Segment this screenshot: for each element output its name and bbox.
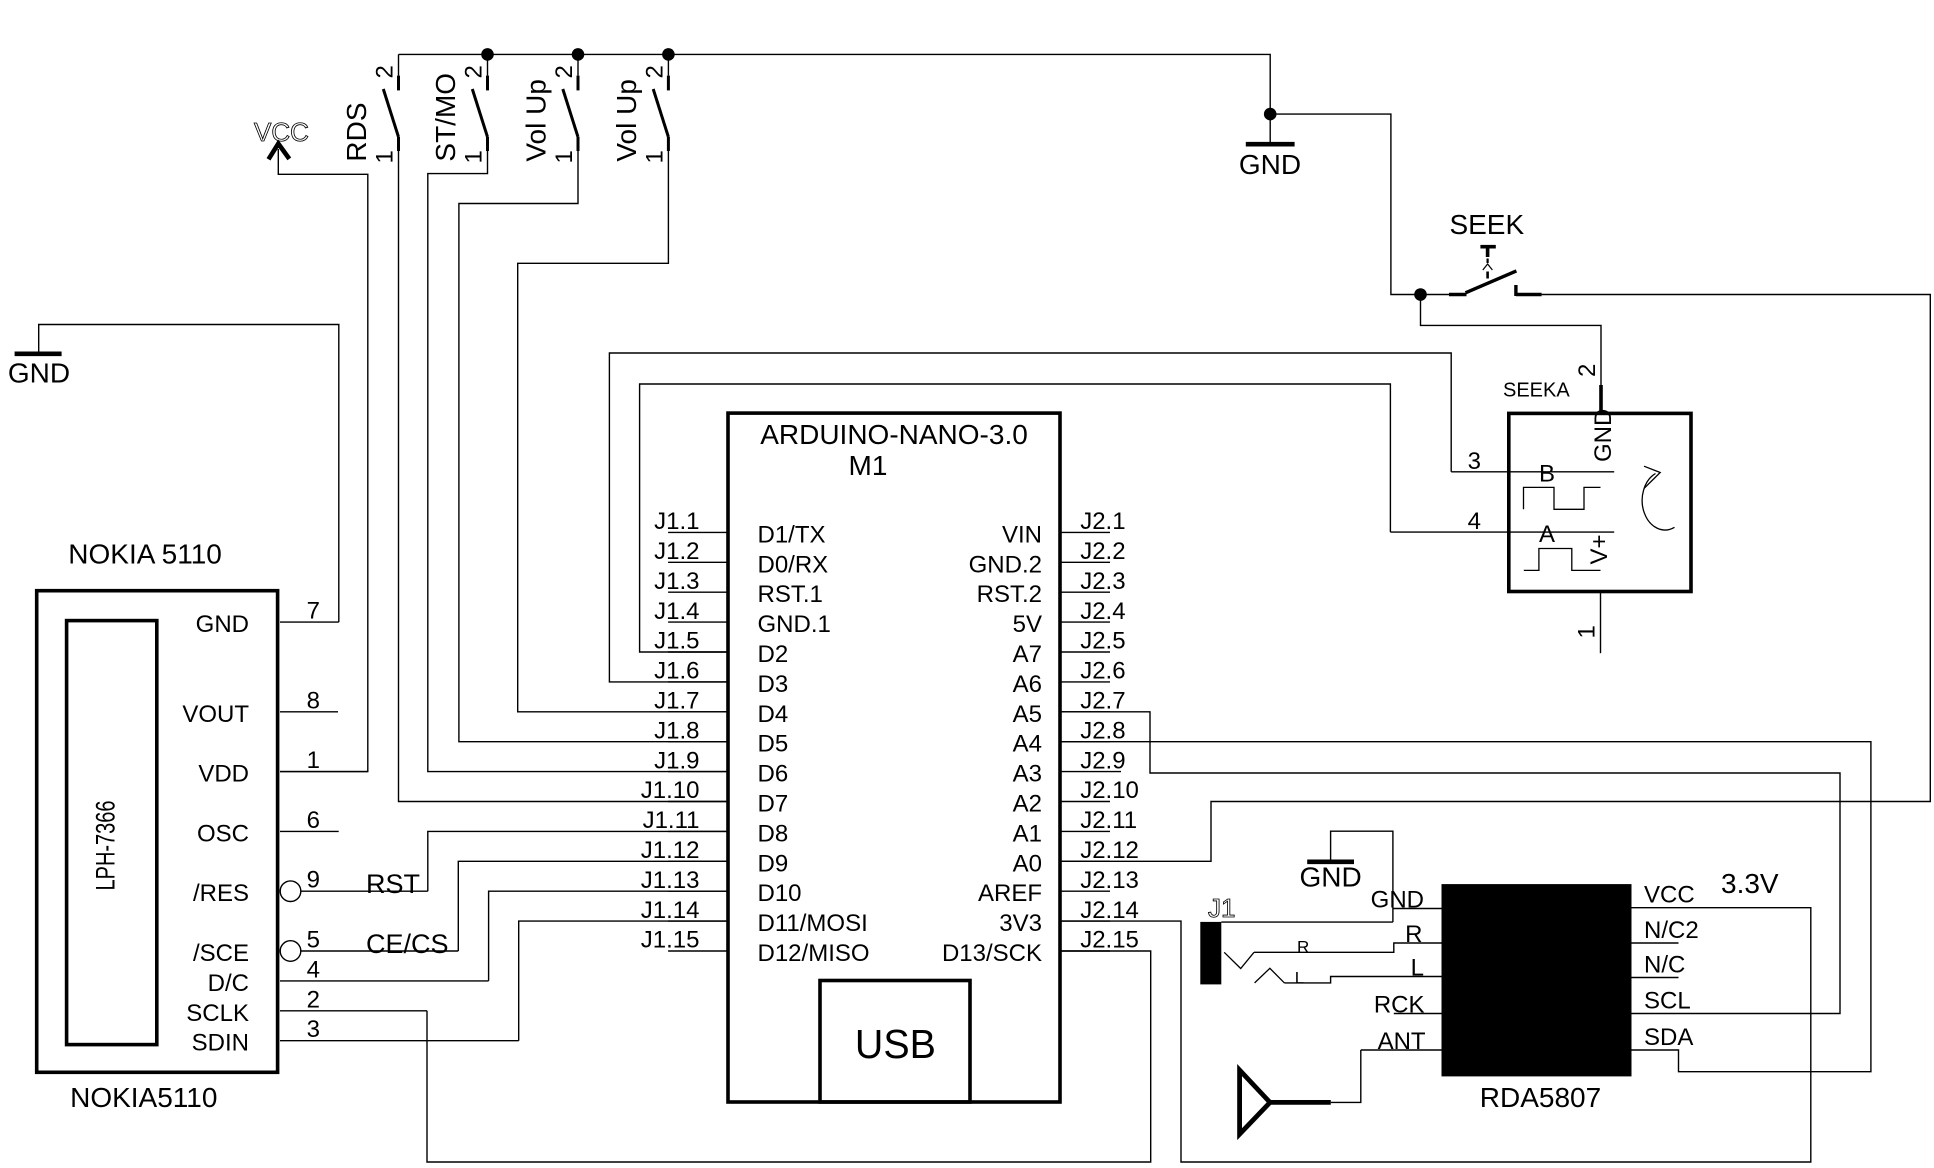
NOKIA pin 1 VDD bbox=[198, 747, 367, 788]
svg-text:J1.12: J1.12 bbox=[641, 837, 700, 864]
svg-text:D4: D4 bbox=[758, 701, 789, 728]
svg-text:D0/RX: D0/RX bbox=[758, 551, 829, 578]
NOKIA 5110 box bbox=[37, 591, 278, 1073]
svg-text:D8: D8 bbox=[758, 820, 789, 847]
Arduino pin J2.10 A2 bbox=[1013, 777, 1139, 817]
Arduino pin J2.12 A0 bbox=[1013, 837, 1139, 877]
wire SEEK to J2.12 A0 bbox=[1060, 295, 1930, 862]
Arduino USB connector box bbox=[820, 981, 970, 1103]
svg-text:D7: D7 bbox=[758, 791, 789, 818]
Arduino pin J1.4 GND.1 bbox=[654, 598, 831, 638]
svg-text:GND: GND bbox=[1299, 861, 1361, 892]
svg-text:GND: GND bbox=[1590, 409, 1617, 462]
svg-text:B: B bbox=[1539, 461, 1555, 488]
svg-text:GND.1: GND.1 bbox=[758, 611, 831, 638]
svg-text:J2.5: J2.5 bbox=[1080, 628, 1125, 655]
Arduino pin J2.1 VIN bbox=[1002, 508, 1126, 548]
svg-text:D11/MOSI: D11/MOSI bbox=[758, 910, 868, 937]
svg-text:1: 1 bbox=[1574, 625, 1601, 638]
svg-text:3: 3 bbox=[307, 1016, 320, 1043]
encoder pin V+ label bbox=[1586, 534, 1613, 564]
Arduino pin J2.7 A5 bbox=[1013, 688, 1126, 728]
svg-text:J1.15: J1.15 bbox=[641, 927, 700, 954]
svg-text:2: 2 bbox=[307, 986, 320, 1013]
svg-text:GND.2: GND.2 bbox=[969, 551, 1042, 578]
net label RST bbox=[366, 869, 420, 899]
NOKIA LCD inner rect bbox=[67, 621, 157, 1045]
svg-text:GND: GND bbox=[196, 611, 249, 638]
net label CE/CS bbox=[366, 929, 449, 959]
rotary encoder SEEKA box bbox=[1503, 380, 1691, 592]
svg-text:SCLK: SCLK bbox=[186, 1000, 249, 1027]
audio jack J1 body bbox=[1200, 922, 1221, 985]
svg-text:NOKIA 5110: NOKIA 5110 bbox=[68, 538, 222, 569]
svg-text:D12/MISO: D12/MISO bbox=[758, 940, 870, 967]
Arduino pin J2.4 5V bbox=[1013, 598, 1126, 638]
svg-text:GND: GND bbox=[1239, 149, 1301, 180]
Arduino pin J2.9 A3 bbox=[1013, 747, 1126, 787]
NOKIA pin 8 VOUT bbox=[182, 687, 338, 728]
wire top GND rail bbox=[399, 54, 1271, 114]
svg-text:J2.7: J2.7 bbox=[1080, 688, 1125, 715]
Arduino pin J1.10 D7 bbox=[641, 777, 788, 817]
svg-text:V+: V+ bbox=[1586, 534, 1613, 564]
svg-text:M1: M1 bbox=[849, 450, 888, 481]
switch ST/MO at x=487.5 bbox=[430, 54, 488, 163]
wire GND to SEEK switch bbox=[1270, 114, 1449, 294]
RDA pin VCC bbox=[1644, 882, 1695, 909]
svg-text:J2.13: J2.13 bbox=[1080, 867, 1139, 894]
NOKIA /SCE inverted-pin circle bbox=[280, 941, 301, 962]
svg-text:/SCE: /SCE bbox=[193, 940, 249, 967]
svg-text:J1.3: J1.3 bbox=[654, 568, 699, 595]
supply label 3.3V bbox=[1721, 868, 1779, 899]
jack L net label bbox=[1295, 969, 1304, 988]
svg-text:J2.4: J2.4 bbox=[1080, 598, 1125, 625]
svg-text:7: 7 bbox=[307, 598, 320, 625]
svg-text:AREF: AREF bbox=[978, 880, 1042, 907]
svg-text:2: 2 bbox=[461, 65, 488, 78]
Arduino pin J2.14 3V3 bbox=[999, 897, 1139, 937]
svg-text:GND: GND bbox=[1371, 887, 1424, 914]
wire RDS to J1.10 D7 bbox=[399, 151, 729, 802]
svg-text:SDA: SDA bbox=[1644, 1024, 1693, 1051]
svg-text:J2.12: J2.12 bbox=[1080, 837, 1139, 864]
wire NOKIA /SCE CE/CS to J1.12 D9 bbox=[458, 861, 728, 951]
audio jack J1 refdes bbox=[1208, 893, 1235, 923]
svg-text:J2.9: J2.9 bbox=[1080, 747, 1125, 774]
Arduino pin J1.11 D8 bbox=[643, 807, 789, 847]
Arduino pin J1.9 D6 bbox=[654, 747, 788, 787]
svg-text:6: 6 bbox=[307, 807, 320, 834]
svg-text:RCK: RCK bbox=[1374, 992, 1425, 1019]
switch RDS at x=398.5 bbox=[341, 54, 399, 163]
NOKIA5110 value label bbox=[70, 1082, 217, 1113]
svg-text:J2.2: J2.2 bbox=[1080, 538, 1125, 565]
power flag VCC bbox=[254, 117, 309, 159]
svg-text:VDD: VDD bbox=[198, 761, 249, 788]
svg-text:D3: D3 bbox=[758, 671, 789, 698]
Arduino pin J2.2 GND.2 bbox=[969, 538, 1126, 578]
junction dot Vol Up(1) pin2 bbox=[572, 48, 585, 61]
svg-text:R: R bbox=[1297, 937, 1309, 956]
svg-text:Vol Up: Vol Up bbox=[611, 79, 642, 162]
svg-text:J1: J1 bbox=[1208, 893, 1235, 923]
jack ring contact R bbox=[1224, 952, 1254, 968]
svg-text:ST/MO: ST/MO bbox=[430, 73, 461, 162]
Arduino refdes M1 bbox=[849, 450, 888, 481]
wire encoder A to J1.5 D2 bbox=[640, 384, 1391, 652]
svg-text:VCC: VCC bbox=[254, 117, 309, 147]
junction dot ST/MO pin2 bbox=[481, 48, 494, 61]
Arduino pin J2.13 AREF bbox=[978, 867, 1139, 907]
svg-text:2: 2 bbox=[1574, 364, 1601, 377]
svg-text:J1.13: J1.13 bbox=[641, 867, 700, 894]
svg-text:RDA5807: RDA5807 bbox=[1480, 1082, 1601, 1113]
NOKIA 5110 title bbox=[68, 538, 222, 569]
Arduino pin J2.3 RST.2 bbox=[977, 568, 1126, 608]
svg-text:RST.2: RST.2 bbox=[977, 581, 1042, 608]
svg-text:USB: USB bbox=[855, 1021, 936, 1067]
Arduino pin J2.15 D13/SCK bbox=[942, 927, 1139, 967]
svg-text:J1.10: J1.10 bbox=[641, 777, 700, 804]
RDA pin SDA bbox=[1644, 1024, 1693, 1051]
svg-text:3V3: 3V3 bbox=[999, 910, 1042, 937]
wire antenna to RDA ANT bbox=[1331, 1050, 1361, 1102]
junction dot Vol Up(2) pin2 bbox=[662, 48, 675, 61]
svg-text:J1.1: J1.1 bbox=[654, 508, 699, 535]
Arduino title bbox=[760, 419, 1028, 450]
svg-text:D5: D5 bbox=[758, 731, 789, 758]
Arduino pin J1.7 D4 bbox=[654, 688, 788, 728]
svg-text:N/C: N/C bbox=[1644, 952, 1685, 979]
wire jack R to RDA R bbox=[1254, 943, 1442, 952]
antenna symbol bbox=[1240, 1070, 1331, 1134]
pushbutton SEEK bbox=[1449, 209, 1542, 296]
wire encoder B to J1.6 D3 bbox=[609, 353, 1451, 682]
wire NOKIA D/C to J1.13 D10 bbox=[489, 891, 728, 981]
Arduino pin J2.11 A1 bbox=[1013, 807, 1137, 847]
svg-text:J1.9: J1.9 bbox=[654, 747, 699, 774]
svg-text:D9: D9 bbox=[758, 850, 789, 877]
Arduino pin J1.14 D11/MOSI bbox=[641, 897, 868, 937]
RDA pin GND bbox=[1371, 887, 1442, 914]
Arduino pin J1.2 D0/RX bbox=[654, 538, 828, 578]
NOKIA pin 5 /SCE bbox=[193, 927, 458, 968]
RDA pin SCL bbox=[1644, 988, 1691, 1015]
svg-text:N/C2: N/C2 bbox=[1644, 917, 1699, 944]
NOKIA pin 6 OSC bbox=[197, 807, 339, 848]
NOKIA pin 4 D/C bbox=[208, 956, 489, 997]
NOKIA pin 2 SCLK bbox=[186, 986, 427, 1027]
wire SEEK to rotary encoder pin 2 bbox=[1421, 295, 1602, 386]
RDA pin ANT bbox=[1361, 1028, 1442, 1055]
NOKIA pin 9 /RES bbox=[193, 867, 428, 908]
Arduino pin J2.8 A4 bbox=[1013, 717, 1126, 757]
RDA pin R bbox=[1405, 921, 1422, 948]
svg-text:1: 1 bbox=[551, 150, 578, 163]
wire J2.14 3V3 to RDA VCC bbox=[1060, 908, 1811, 1162]
svg-text:VIN: VIN bbox=[1002, 521, 1042, 548]
Arduino pin J1.12 D9 bbox=[641, 837, 788, 877]
svg-text:J2.8: J2.8 bbox=[1080, 717, 1125, 744]
svg-text:5: 5 bbox=[307, 927, 320, 954]
wire Vol Up(1) to J1.8 D5 bbox=[459, 151, 728, 742]
wire NOKIA SDIN to J1.14 D11/MOSI bbox=[519, 921, 728, 1041]
svg-text:1: 1 bbox=[372, 150, 399, 163]
svg-text:J2.3: J2.3 bbox=[1080, 568, 1125, 595]
svg-text:LPH-7366: LPH-7366 bbox=[91, 801, 121, 891]
svg-text:A3: A3 bbox=[1013, 761, 1042, 788]
svg-text:A6: A6 bbox=[1013, 671, 1042, 698]
svg-text:GND: GND bbox=[8, 358, 70, 389]
encoder waveform B bbox=[1524, 487, 1601, 509]
junction dot SEEK node bbox=[1414, 288, 1427, 301]
jack sleeve wire to GND bbox=[1221, 921, 1393, 923]
wire J2.7 A5 to RDA SCL bbox=[1060, 712, 1840, 1014]
RDA pin N/C bbox=[1632, 952, 1686, 979]
svg-text:A0: A0 bbox=[1013, 850, 1042, 877]
wire NOKIA SCLK to J2.15 D13/SCK bbox=[427, 951, 1151, 1162]
svg-text:VOUT: VOUT bbox=[182, 701, 249, 728]
svg-text:A7: A7 bbox=[1013, 641, 1042, 668]
ground symbol GND (near RDA5807) bbox=[1299, 831, 1392, 922]
svg-text:J1.11: J1.11 bbox=[643, 807, 700, 834]
svg-text:Vol Up: Vol Up bbox=[521, 79, 552, 162]
wire VCC to NOKIA VDD pin 1 bbox=[278, 149, 368, 772]
svg-text:R: R bbox=[1405, 921, 1422, 948]
svg-text:J2.10: J2.10 bbox=[1080, 777, 1139, 804]
wire J2.8 A4 to RDA SDA bbox=[1060, 742, 1871, 1072]
encoder pin GND label bbox=[1590, 409, 1617, 462]
svg-text:A5: A5 bbox=[1013, 701, 1042, 728]
svg-text:D1/TX: D1/TX bbox=[758, 521, 826, 548]
svg-text:ARDUINO-NANO-3.0: ARDUINO-NANO-3.0 bbox=[760, 419, 1028, 450]
svg-text:/RES: /RES bbox=[193, 880, 249, 907]
RDA pin N/C2 bbox=[1632, 917, 1699, 944]
junction dot GND node bbox=[1264, 108, 1277, 121]
svg-text:8: 8 bbox=[307, 687, 320, 714]
RDA5807 value label bbox=[1480, 1082, 1601, 1113]
NOKIA /RES inverted-pin circle bbox=[280, 881, 301, 902]
Arduino pin J1.1 D1/TX bbox=[654, 508, 825, 548]
svg-text:J1.8: J1.8 bbox=[654, 717, 699, 744]
svg-text:J1.7: J1.7 bbox=[654, 688, 699, 715]
svg-text:D2: D2 bbox=[758, 641, 789, 668]
wire Vol Up(2) to J1.7 D4 bbox=[518, 151, 728, 712]
encoder rotation arrow bbox=[1642, 466, 1674, 530]
encoder waveform A bbox=[1524, 549, 1601, 571]
svg-text:J2.6: J2.6 bbox=[1080, 658, 1125, 685]
svg-text:A1: A1 bbox=[1013, 820, 1042, 847]
ground symbol GND (left) bbox=[8, 325, 339, 623]
svg-text:2: 2 bbox=[551, 65, 578, 78]
switch Vol Up at x=668.4 bbox=[611, 54, 669, 163]
svg-text:SCL: SCL bbox=[1644, 988, 1691, 1015]
svg-text:SEEK: SEEK bbox=[1449, 209, 1524, 240]
Arduino pin J1.13 D10 bbox=[641, 867, 802, 907]
Arduino Nano box bbox=[728, 413, 1060, 1102]
svg-text:J1.2: J1.2 bbox=[654, 538, 699, 565]
svg-text:A: A bbox=[1539, 521, 1555, 548]
switch Vol Up at x=578.0 bbox=[521, 54, 579, 163]
svg-text:5V: 5V bbox=[1013, 611, 1042, 638]
Arduino pin J2.6 A6 bbox=[1013, 658, 1126, 698]
encoder pin 1 stub bbox=[1574, 592, 1601, 654]
svg-text:4: 4 bbox=[1468, 508, 1481, 535]
RDA pin L bbox=[1411, 955, 1424, 982]
Arduino pin J1.15 D12/MISO bbox=[641, 927, 870, 967]
svg-text:J1.6: J1.6 bbox=[654, 658, 699, 685]
svg-text:D6: D6 bbox=[758, 761, 789, 788]
Arduino pin J1.5 D2 bbox=[654, 628, 788, 668]
encoder pin 4 A bbox=[1390, 508, 1614, 548]
svg-text:RST.1: RST.1 bbox=[758, 581, 823, 608]
svg-text:RST: RST bbox=[366, 869, 420, 899]
svg-text:9: 9 bbox=[307, 867, 320, 894]
svg-text:3.3V: 3.3V bbox=[1721, 868, 1779, 899]
svg-text:NOKIA5110: NOKIA5110 bbox=[70, 1082, 217, 1113]
svg-text:4: 4 bbox=[307, 956, 320, 983]
jack tip contact L bbox=[1255, 968, 1285, 983]
jack R net label bbox=[1297, 937, 1309, 956]
NOKIA pin 3 SDIN bbox=[192, 1016, 519, 1057]
wire NOKIA /RES RST to J1.11 D8 bbox=[428, 831, 728, 891]
svg-text:SEEKA: SEEKA bbox=[1503, 380, 1570, 402]
svg-text:1: 1 bbox=[641, 150, 668, 163]
encoder pin 2 stub bbox=[1574, 364, 1601, 414]
encoder pin 3 B bbox=[1451, 448, 1614, 488]
svg-text:SDIN: SDIN bbox=[192, 1030, 249, 1057]
svg-text:OSC: OSC bbox=[197, 820, 249, 847]
svg-text:1: 1 bbox=[307, 747, 320, 774]
LPH-7366 label bbox=[91, 801, 121, 891]
Arduino pin J1.3 RST.1 bbox=[654, 568, 823, 608]
svg-text:J1.4: J1.4 bbox=[654, 598, 699, 625]
svg-text:VCC: VCC bbox=[1644, 882, 1695, 909]
svg-text:J2.14: J2.14 bbox=[1080, 897, 1139, 924]
wire ST/MO to J1.9 D6 bbox=[428, 151, 728, 772]
Arduino pin J1.8 D5 bbox=[654, 717, 788, 757]
NOKIA pin 7 GND bbox=[196, 598, 339, 639]
svg-text:A4: A4 bbox=[1013, 731, 1042, 758]
svg-text:J1.14: J1.14 bbox=[641, 897, 700, 924]
svg-text:D/C: D/C bbox=[208, 970, 249, 997]
ground symbol GND (top right) bbox=[1239, 114, 1301, 180]
svg-text:L: L bbox=[1411, 955, 1424, 982]
svg-text:A2: A2 bbox=[1013, 791, 1042, 818]
svg-text:J2.15: J2.15 bbox=[1080, 927, 1139, 954]
svg-text:2: 2 bbox=[372, 65, 399, 78]
svg-text:1: 1 bbox=[461, 150, 488, 163]
svg-text:RDS: RDS bbox=[341, 102, 372, 161]
svg-text:J2.11: J2.11 bbox=[1080, 807, 1137, 834]
svg-text:2: 2 bbox=[641, 65, 668, 78]
RDA pin RCK bbox=[1374, 992, 1442, 1019]
svg-text:D13/SCK: D13/SCK bbox=[942, 940, 1042, 967]
RDA5807 IC box bbox=[1442, 884, 1632, 1076]
wire jack L to RDA L bbox=[1284, 977, 1441, 983]
svg-text:L: L bbox=[1295, 969, 1304, 988]
svg-text:J2.1: J2.1 bbox=[1080, 508, 1125, 535]
svg-text:ANT: ANT bbox=[1378, 1028, 1426, 1055]
svg-text:CE/CS: CE/CS bbox=[366, 929, 449, 959]
svg-text:D10: D10 bbox=[758, 880, 802, 907]
Arduino pin J1.6 D3 bbox=[654, 658, 788, 698]
svg-text:3: 3 bbox=[1468, 448, 1481, 475]
Arduino pin J2.5 A7 bbox=[1013, 628, 1126, 668]
svg-text:J1.5: J1.5 bbox=[654, 628, 699, 655]
